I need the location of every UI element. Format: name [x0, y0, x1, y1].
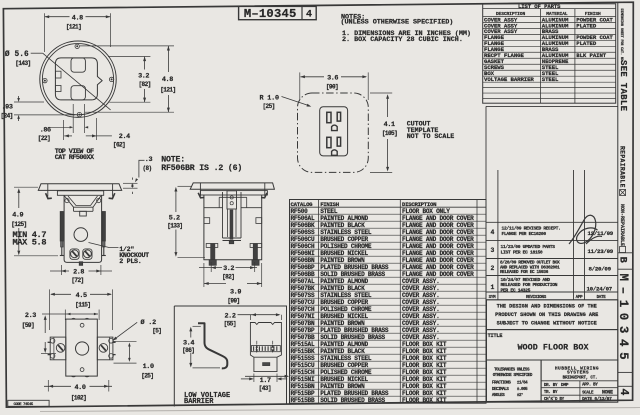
dimension 2.4 [62] — [64, 135, 72, 137]
svg-text:CODE 74545: CODE 74545 — [14, 403, 34, 407]
svg-text:RF506NI: RF506NI — [291, 250, 315, 257]
svg-text:11/23/09 UPDATED PARTS: 11/23/09 UPDATED PARTS — [501, 244, 556, 250]
svg-text:±2°: ±2° — [517, 393, 523, 398]
svg-text:[105]: [105] — [382, 130, 397, 137]
svg-text:.86: .86 — [40, 127, 51, 135]
left side view adjusting screws — [60, 212, 63, 242]
left side view bottom ears — [70, 249, 79, 259]
bottom receptacle knockout — [71, 86, 85, 100]
cover screws on circle — [75, 44, 79, 48]
svg-text:4.9: 4.9 — [12, 212, 23, 220]
svg-text:[59]: [59] — [22, 322, 34, 329]
svg-text:[90]: [90] — [326, 84, 338, 91]
parts table empty rows — [483, 87, 616, 89]
svg-text:TR. BY: TR. BY — [544, 391, 558, 395]
receptacle outline in cutout — [320, 107, 348, 156]
svg-text:FLOOR BOX KIT: FLOOR BOX KIT — [402, 397, 447, 404]
svg-text:2.3: 2.3 — [25, 312, 36, 320]
dimension 1.0 [25] right bottom view — [114, 340, 137, 342]
svg-text:3: 3 — [491, 247, 495, 254]
unlabeled dim at box top — [42, 313, 98, 315]
code number box bottom left — [8, 400, 49, 406]
svg-text:8/20/09: 8/20/09 — [589, 265, 612, 272]
tolerances box — [487, 360, 542, 402]
approval rows — [541, 380, 618, 382]
svg-text:1.0: 1.0 — [143, 363, 154, 371]
svg-text:FRACTIONS: FRACTIONS — [492, 382, 512, 386]
svg-text:1: 1 — [491, 284, 495, 291]
svg-text:DISCRIPTION: DISCRIPTION — [402, 201, 437, 208]
svg-text:DR. BY: DR. BY — [544, 384, 558, 388]
svg-text:RELEASED FOR EC 15936: RELEASED FOR EC 15936 — [500, 270, 549, 275]
revision row lines — [486, 221, 618, 223]
svg-text:FLANGE AND DOOR COVER: FLANGE AND DOOR COVER — [402, 250, 474, 257]
left side view gasket — [57, 191, 103, 196]
svg-text:WOOD FLOOR BOX: WOOD FLOOR BOX — [517, 343, 589, 353]
svg-text:.3: .3 — [145, 156, 153, 164]
upper outlet ground hole — [332, 125, 338, 131]
svg-text:TOLERANCES UNLESS: TOLERANCES UNLESS — [494, 369, 530, 373]
svg-text:[24]: [24] — [1, 113, 13, 120]
svg-text:DMP: DMP — [561, 382, 569, 388]
svg-text:4.0: 4.0 — [74, 384, 85, 392]
right side view wall slots — [204, 218, 210, 224]
svg-text:[43]: [43] — [259, 385, 271, 392]
drawing number box M-10345 — [239, 6, 317, 19]
svg-text:RF515BB: RF515BB — [291, 397, 315, 404]
right margin strip border — [617, 2, 619, 400]
svg-text:[115]: [115] — [75, 302, 90, 309]
svg-text:BARRIER: BARRIER — [184, 398, 214, 406]
svg-text:2.2: 2.2 — [224, 312, 235, 320]
dimension 3.9 [99] right view — [204, 283, 226, 285]
dimension 3.4 [86] vertical — [190, 329, 192, 338]
approval signature scribble — [569, 215, 602, 244]
svg-text:DECIMALS: DECIMALS — [492, 388, 509, 392]
svg-text:SEE TABLE: SEE TABLE — [618, 60, 628, 112]
left side view corner screws — [65, 199, 69, 203]
top view inner circle — [42, 44, 113, 115]
dimension 4.0 [102] bottom — [44, 385, 71, 387]
right side view flange clips — [199, 183, 201, 196]
barrier arrow marks — [256, 344, 258, 348]
svg-text:APP. BY: APP. BY — [582, 384, 598, 388]
svg-text:4: 4 — [617, 389, 630, 396]
svg-text:[102]: [102] — [71, 395, 86, 402]
svg-text:NOTE:: NOTE: — [161, 155, 185, 164]
svg-text:[55]: [55] — [224, 320, 236, 327]
svg-text:NONE: NONE — [602, 390, 613, 396]
svg-text:5.2: 5.2 — [169, 214, 180, 222]
svg-text:4.8: 4.8 — [162, 76, 173, 84]
knockout label leader — [89, 243, 119, 248]
svg-text:BRUSHED NICKEL: BRUSHED NICKEL — [320, 250, 368, 257]
svg-text:[25]: [25] — [141, 373, 153, 380]
left side view knockout circle — [74, 228, 88, 242]
svg-text:4: 4 — [306, 10, 312, 21]
svg-text:MAX 5.8: MAX 5.8 — [13, 237, 47, 247]
svg-text:BRIDGEPORT, CT.: BRIDGEPORT, CT. — [563, 377, 598, 381]
title row WOOD FLOOR BOX — [487, 330, 618, 360]
scanner shadow line bottom — [40, 408, 640, 412]
svg-text:CAT RF500XX: CAT RF500XX — [55, 154, 95, 162]
svg-text:PRODUCT SHOWN ON THIS DRAWING: PRODUCT SHOWN ON THIS DRAWING ARE — [495, 312, 598, 318]
svg-text:[143]: [143] — [15, 60, 30, 67]
svg-text:4.8: 4.8 — [72, 14, 83, 22]
left side view center tab — [79, 262, 82, 266]
low voltage barrier front view — [250, 323, 281, 358]
dimension 4.5 [115] bottom view width — [51, 293, 71, 295]
dimension 4.1 [105] cutout height — [387, 96, 389, 118]
note leader bracket — [139, 160, 145, 177]
left side view flange clips — [47, 184, 49, 197]
svg-text:ANGLES: ANGLES — [492, 394, 505, 398]
svg-text:LIST OF PARTS: LIST OF PARTS — [518, 3, 561, 10]
svg-text:PER EC 14325: PER EC 14325 — [501, 287, 531, 293]
svg-text:[5]: [5] — [152, 328, 161, 335]
svg-text:CATALOG: CATALOG — [291, 201, 314, 208]
svg-text:B: B — [617, 257, 629, 264]
svg-text:[86]: [86] — [182, 347, 194, 354]
top receptacle knockout — [71, 58, 85, 72]
svg-text:OTHERWISE SPECIFIED: OTHERWISE SPECIFIED — [493, 374, 533, 378]
svg-text:2. BOX CAPACITY 28 CUBIC INCH.: 2. BOX CAPACITY 28 CUBIC INCH. — [342, 36, 463, 44]
svg-text:NON-REPAIRABLE: NON-REPAIRABLE — [619, 204, 625, 246]
top view outer flange circle — [40, 41, 116, 117]
svg-text:SOLID BRUSHED BRASS: SOLID BRUSHED BRASS — [320, 397, 385, 404]
svg-text:[72]: [72] — [71, 277, 83, 284]
dimension 2.8 [72] box width — [50, 270, 69, 272]
svg-text:[22]: [22] — [38, 135, 50, 142]
svg-text:LIST PER EC 18150: LIST PER EC 18150 — [501, 249, 543, 255]
svg-text:NOT TO SCALE: NOT TO SCALE — [407, 133, 455, 141]
svg-text:SYSTEMS: SYSTEMS — [567, 370, 589, 376]
svg-text:SCALE: SCALE — [582, 391, 594, 395]
svg-text:R 1.0: R 1.0 — [260, 95, 280, 103]
bottom view screw holes — [80, 323, 84, 327]
svg-text:2.4: 2.4 — [119, 133, 130, 141]
bottom view ear nubs — [48, 341, 51, 343]
svg-text:±1/64: ±1/64 — [517, 381, 528, 386]
left knockout tabs — [55, 71, 61, 78]
svg-text:4: 4 — [491, 229, 495, 236]
svg-text:Ø .2: Ø .2 — [141, 318, 157, 327]
right side view flange plate — [190, 183, 274, 189]
svg-text:FLANGE PER EC16200: FLANGE PER EC16200 — [502, 231, 547, 237]
bottom view box outline — [66, 319, 98, 376]
catalog table frame — [290, 200, 487, 404]
svg-text:[99]: [99] — [227, 298, 239, 305]
svg-text:FINISH: FINISH — [320, 201, 340, 208]
svg-text:(8): (8) — [143, 165, 152, 172]
svg-text:1.7: 1.7 — [260, 377, 271, 385]
svg-text:[25]: [25] — [263, 103, 275, 110]
svg-text:CH'K'D BY: CH'K'D BY — [544, 397, 565, 402]
svg-text:2.8: 2.8 — [73, 269, 84, 277]
svg-text:±.005: ±.005 — [517, 388, 528, 392]
right side view gasket — [200, 191, 267, 195]
svg-text:DIMENSION SHEET FOR CAT. NO.: DIMENSION SHEET FOR CAT. NO. — [619, 9, 623, 63]
sheet revision 4 bottom right — [618, 371, 633, 373]
svg-text:3.2: 3.2 — [223, 265, 234, 273]
parts table column headers — [483, 15, 616, 17]
svg-text:[121]: [121] — [160, 87, 175, 94]
dimension 4.8 [121] right vertical — [167, 46, 169, 72]
right side view center tab — [229, 241, 233, 244]
svg-text:RF506BR IS .2 (6): RF506BR IS .2 (6) — [161, 163, 242, 173]
size letter B box — [618, 252, 633, 254]
upper outlet slots — [327, 112, 331, 122]
dimension 3.6 [90] cutout width — [301, 76, 325, 78]
barrier slot band — [252, 346, 281, 352]
svg-text:REPAIRABLE: REPAIRABLE — [618, 146, 625, 188]
svg-text:10/24/07: 10/24/07 — [587, 286, 613, 293]
diameter leader line — [31, 52, 43, 54]
revision block columns — [486, 105, 618, 107]
svg-text:.93: .93 — [2, 104, 13, 112]
top view box opening outline — [55, 58, 102, 100]
right side view box walls — [204, 195, 262, 260]
lower outlet ground hole — [332, 150, 338, 156]
svg-text:11/23/09: 11/23/09 — [588, 248, 614, 255]
bottom view left ear — [50, 337, 66, 360]
flange thickness extension lines — [123, 182, 138, 184]
svg-text:[82]: [82] — [138, 81, 150, 88]
right side view mounting screw dark bar — [230, 210, 233, 239]
svg-text:M–10345: M–10345 — [244, 7, 297, 21]
svg-text:2 PLS.: 2 PLS. — [119, 258, 141, 266]
left side view flange plate — [38, 184, 121, 191]
company box HUBBELL WIRING SYSTEMS — [541, 360, 618, 402]
low voltage barrier Z bracket side view — [198, 323, 227, 368]
svg-text:4.1: 4.1 — [384, 121, 395, 129]
svg-text:3.9: 3.9 — [230, 288, 241, 296]
svg-text:2: 2 — [491, 265, 495, 272]
svg-text:10/24/07 REVISED AND: 10/24/07 REVISED AND — [501, 277, 551, 283]
dimension 4.8 [121] top horizontal — [45, 16, 70, 18]
lower outlet slots — [327, 137, 331, 147]
svg-text:RELEASED FOR PRODUCTION: RELEASED FOR PRODUCTION — [501, 282, 558, 288]
left side view receptacle funnel — [65, 196, 101, 207]
svg-text:[62]: [62] — [113, 142, 125, 149]
disclaimer box text — [487, 300, 618, 330]
right side view bottom brackets — [206, 244, 218, 248]
svg-text:[125]: [125] — [11, 221, 26, 228]
dimension 3.2 [82] right view — [199, 267, 222, 269]
bottom view right ear — [97, 337, 113, 360]
barrier lower tab — [254, 357, 277, 371]
svg-text:[82]: [82] — [222, 273, 234, 280]
svg-text:4.5: 4.5 — [76, 292, 87, 300]
right side view receptacle column — [222, 192, 224, 238]
bottom view center knockout — [76, 342, 89, 355]
svg-text:TITLE: TITLE — [488, 333, 504, 339]
arrow pointing to RF515NI row — [245, 375, 288, 377]
left side view box walls — [64, 195, 102, 262]
svg-text:12/11/09 REVISED RECEPT.: 12/11/09 REVISED RECEPT. — [502, 226, 561, 232]
svg-text:DATE 6/13/07: DATE 6/13/07 — [582, 396, 612, 402]
cutout template dash-dot outline — [298, 93, 369, 172]
parts table column lines — [539, 9, 541, 104]
svg-text:Ø 5.6: Ø 5.6 — [5, 50, 29, 59]
svg-text:[133]: [133] — [167, 223, 182, 230]
svg-text:3.2: 3.2 — [138, 73, 149, 81]
svg-text:3.6: 3.6 — [327, 75, 338, 83]
soft scan blur filter — [0, 0, 1, 1]
svg-text:[121]: [121] — [66, 24, 81, 31]
svg-text:THE DESIGN AND DIMENSIONS OF T: THE DESIGN AND DIMENSIONS OF THE — [497, 304, 597, 310]
svg-text:(UNLESS OTHERWISE SPECIFIED): (UNLESS OTHERWISE SPECIFIED) — [341, 19, 454, 27]
svg-text:SUBJECT TO CHANGE WITHOUT NOTI: SUBJECT TO CHANGE WITHOUT NOTICE — [497, 320, 597, 326]
dimension 3.2 [82] right vertical — [144, 57, 146, 70]
list of parts table frame — [483, 4, 616, 103]
list of parts header — [483, 8, 616, 10]
right side view bottom screws — [211, 244, 215, 260]
right side view internal shelf — [204, 207, 223, 209]
bottom view top bumps — [72, 317, 90, 320]
dimension 1.7 [43] horizontal — [241, 378, 253, 380]
low voltage barrier detail box — [174, 306, 286, 407]
